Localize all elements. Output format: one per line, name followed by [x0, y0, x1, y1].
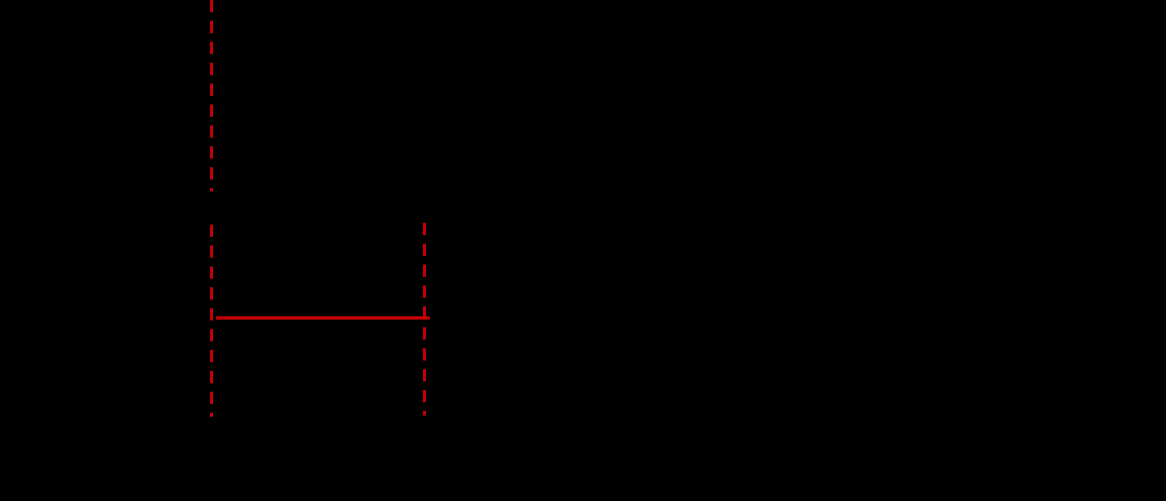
solid horizontal line [216, 316, 430, 319]
dashed vertical line left (upper segment) [210, 0, 213, 191]
dashed vertical line left (lower segment) [210, 225, 213, 417]
dashed vertical line right [423, 223, 426, 416]
